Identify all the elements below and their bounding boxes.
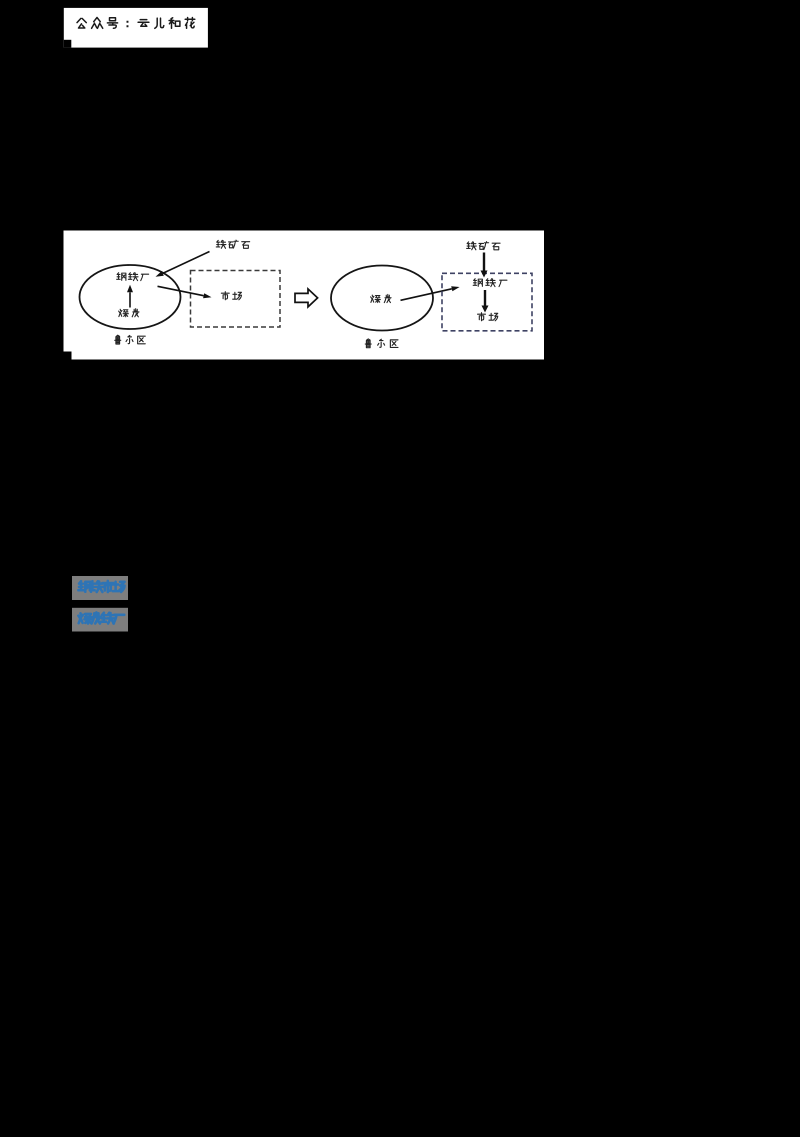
header white box	[64, 8, 208, 48]
arrow iron ore into ellipse left	[163, 252, 210, 274]
label 煤炭 right	[371, 294, 391, 302]
label 煤炭 left	[119, 309, 139, 317]
answer button 1	[72, 576, 128, 600]
arrow iron ore down right	[483, 253, 485, 271]
label 市场 left	[221, 292, 241, 300]
header box notch	[64, 40, 72, 48]
dashed box market left	[191, 271, 281, 328]
arrow steel plant to market right	[484, 290, 486, 306]
diagram panel notch	[64, 352, 72, 360]
arrow coal to steel plant right	[401, 289, 452, 301]
answer button 2	[72, 608, 128, 632]
label 鲁尔区 left	[115, 335, 146, 344]
label 市场 right	[478, 313, 498, 321]
label 鲁尔区 right	[365, 339, 398, 348]
label 钢铁厂 right	[473, 279, 507, 287]
ellipse Ruhr left	[80, 265, 181, 329]
arrow coal to steel plant left	[129, 292, 131, 307]
diagram white panel	[64, 231, 545, 360]
ellipse Ruhr right	[331, 266, 433, 331]
label 铁矿石 right	[467, 242, 500, 250]
arrow steel plant to market left	[158, 286, 204, 295]
dashed box steel and market right	[442, 273, 532, 331]
block arrow transformation	[295, 289, 318, 307]
label 钢铁厂 left	[117, 273, 149, 281]
header text 公众号：云儿和花	[77, 18, 195, 29]
label 铁矿石 left	[216, 240, 249, 248]
